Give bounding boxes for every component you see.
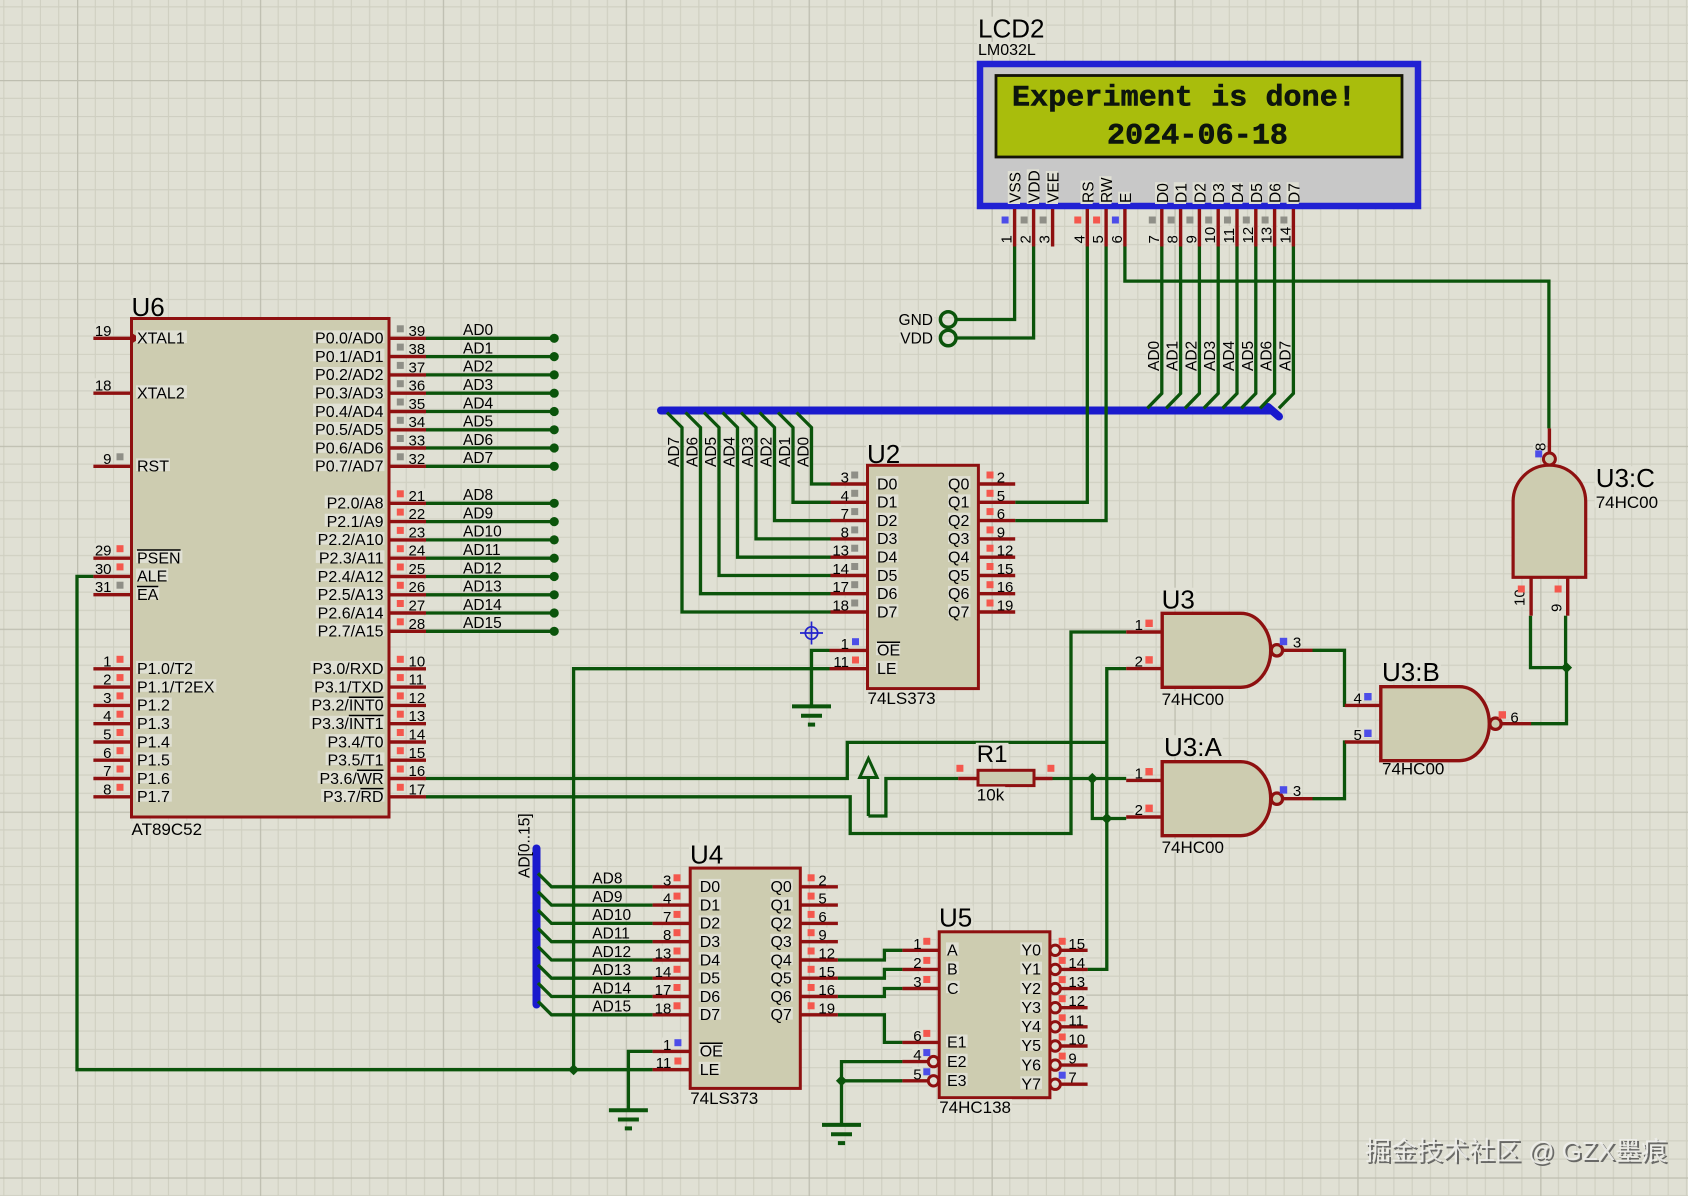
wire U3:A output to U3:B pin5 bbox=[1313, 742, 1346, 799]
svg-text:P0.6/AD6: P0.6/AD6 bbox=[315, 440, 384, 457]
svg-text:9: 9 bbox=[1183, 235, 1200, 243]
svg-text:1: 1 bbox=[103, 653, 111, 670]
NAND gate U3:A 74HC00 bbox=[1126, 732, 1312, 857]
wire AD5 from U6 P0.5 bbox=[426, 425, 559, 434]
U3:A pin numbers bbox=[1134, 766, 1144, 778]
svg-text:2: 2 bbox=[818, 872, 826, 889]
svg-text:4: 4 bbox=[913, 1047, 921, 1064]
svg-text:4: 4 bbox=[1071, 235, 1088, 243]
svg-text:P3.2/INT0: P3.2/INT0 bbox=[311, 698, 383, 715]
svg-text:D0: D0 bbox=[700, 879, 721, 896]
svg-text:Q0: Q0 bbox=[948, 476, 969, 493]
svg-text:P1.7: P1.7 bbox=[137, 789, 170, 806]
R1 reference label bbox=[976, 743, 1009, 762]
svg-text:28: 28 bbox=[409, 616, 426, 633]
junction U3:C input tie bbox=[1561, 662, 1572, 673]
net label AD11 bbox=[591, 926, 632, 938]
svg-text:D4: D4 bbox=[700, 952, 721, 969]
wire AD7 bus entry to U2 D7 bbox=[667, 413, 831, 613]
U3 pin numbers bbox=[1134, 618, 1144, 630]
svg-text:U3:C: U3:C bbox=[1596, 463, 1655, 493]
svg-text:19: 19 bbox=[818, 1000, 835, 1017]
NAND gate U3 74HC00 bbox=[1126, 585, 1312, 710]
net label AD8 bbox=[462, 487, 494, 499]
power terminal GND bbox=[940, 312, 956, 328]
net label AD6 bbox=[685, 436, 702, 468]
U4 pin 1 OE bbox=[653, 1050, 691, 1053]
svg-text:1: 1 bbox=[841, 636, 849, 653]
svg-text:VDD: VDD bbox=[900, 331, 933, 348]
svg-text:P2.7/A15: P2.7/A15 bbox=[318, 624, 384, 641]
U6 pin 9 RST bbox=[93, 465, 131, 468]
svg-text:8: 8 bbox=[663, 927, 671, 944]
svg-text:17: 17 bbox=[832, 579, 849, 596]
svg-text:1: 1 bbox=[1135, 765, 1143, 782]
net label AD3 bbox=[740, 436, 757, 468]
svg-text:32: 32 bbox=[409, 451, 426, 468]
svg-text:VSS: VSS bbox=[1008, 172, 1025, 203]
svg-text:6: 6 bbox=[913, 1028, 921, 1045]
svg-text:7: 7 bbox=[663, 909, 671, 926]
wire U4 Q7 to U5 E1 bbox=[838, 1015, 903, 1043]
svg-text:3: 3 bbox=[1293, 783, 1301, 800]
U2 pins D0-D7 bbox=[831, 482, 868, 485]
wire U3:C pin10 input tie bbox=[1531, 616, 1567, 668]
svg-text:4: 4 bbox=[663, 891, 671, 908]
svg-text:6: 6 bbox=[997, 506, 1005, 523]
wire AD3 bus entry to U2 D3 bbox=[741, 413, 831, 539]
svg-text:16: 16 bbox=[818, 982, 835, 999]
svg-text:GND: GND bbox=[899, 312, 933, 329]
svg-text:Q2: Q2 bbox=[770, 916, 791, 933]
wire AD3 from U6 P0.3 bbox=[426, 389, 559, 398]
svg-text:U3:A: U3:A bbox=[1164, 732, 1222, 762]
svg-text:AD6: AD6 bbox=[685, 437, 702, 467]
svg-text:34: 34 bbox=[409, 414, 426, 431]
svg-text:7: 7 bbox=[841, 506, 849, 523]
U4 pins D0-D7 bbox=[653, 885, 691, 888]
svg-text:ALE: ALE bbox=[137, 569, 167, 586]
net label GND bbox=[898, 312, 934, 324]
U5 output pins Y0-Y7 bbox=[1050, 945, 1060, 955]
svg-text:11: 11 bbox=[1221, 228, 1238, 244]
U3:A reference label bbox=[1163, 735, 1223, 755]
svg-text:AD4: AD4 bbox=[722, 436, 739, 467]
resistor R1 10k bbox=[956, 741, 1054, 805]
bus AD[0..15] vertical bus near U4 bbox=[533, 849, 541, 1005]
ground below U4 OE bbox=[609, 1110, 648, 1128]
U6 pin 18 XTAL2 bbox=[93, 392, 131, 395]
svg-text:AD3: AD3 bbox=[740, 437, 757, 467]
U6 pin 30 ALE bbox=[93, 575, 131, 578]
svg-text:P0.5/AD5: P0.5/AD5 bbox=[315, 422, 384, 439]
svg-text:Q4: Q4 bbox=[948, 550, 969, 567]
svg-text:12: 12 bbox=[409, 690, 426, 707]
svg-text:D3: D3 bbox=[877, 531, 898, 548]
svg-text:30: 30 bbox=[95, 561, 112, 578]
svg-text:Y0: Y0 bbox=[1021, 943, 1041, 960]
svg-text:P3.6/WR: P3.6/WR bbox=[319, 771, 383, 788]
svg-text:10: 10 bbox=[409, 653, 426, 670]
svg-text:3: 3 bbox=[841, 470, 849, 487]
svg-text:15: 15 bbox=[818, 964, 835, 981]
svg-text:13: 13 bbox=[409, 708, 426, 725]
svg-text:33: 33 bbox=[409, 433, 426, 450]
svg-text:Q6: Q6 bbox=[948, 586, 969, 603]
svg-text:2: 2 bbox=[1135, 653, 1143, 670]
svg-text:D0: D0 bbox=[877, 476, 898, 493]
U2 reference label bbox=[866, 442, 901, 462]
LCD pin stubs and numbers 1-14 bbox=[1013, 209, 1016, 247]
svg-text:P3.7/RD: P3.7/RD bbox=[323, 789, 383, 806]
net label AD6 (LCD side) bbox=[1259, 340, 1276, 372]
svg-text:AD1: AD1 bbox=[463, 340, 493, 357]
net label AD2 bbox=[759, 436, 776, 468]
svg-text:2: 2 bbox=[1135, 802, 1143, 819]
wire U4 Q to U5 A bbox=[838, 950, 903, 960]
net label AD9 bbox=[591, 889, 623, 901]
svg-text:AD15: AD15 bbox=[463, 615, 502, 632]
svg-text:3: 3 bbox=[663, 872, 671, 889]
net label AD2 bbox=[462, 359, 494, 371]
svg-text:Y1: Y1 bbox=[1021, 962, 1041, 979]
svg-text:Y5: Y5 bbox=[1021, 1038, 1041, 1055]
svg-text:U3:B: U3:B bbox=[1382, 657, 1440, 687]
svg-text:5: 5 bbox=[997, 488, 1005, 505]
net label AD1 bbox=[777, 436, 794, 468]
net label AD7 bbox=[666, 436, 683, 468]
svg-text:14: 14 bbox=[832, 561, 849, 578]
svg-text:AD5: AD5 bbox=[703, 437, 720, 467]
net label AD0 bbox=[462, 322, 494, 334]
wire U3:A pin2 tie bbox=[1101, 813, 1126, 824]
svg-text:P3.1/TXD: P3.1/TXD bbox=[314, 679, 383, 696]
decoder U5 74HC138 bbox=[902, 903, 1087, 1118]
svg-text:AD12: AD12 bbox=[592, 944, 631, 961]
svg-text:Q5: Q5 bbox=[948, 568, 969, 585]
svg-text:D2: D2 bbox=[877, 513, 898, 530]
svg-text:12: 12 bbox=[997, 543, 1014, 560]
wire LCD RW to U2 Q2 bbox=[1015, 247, 1106, 521]
wire AD4 from U6 P0.4 bbox=[426, 407, 559, 416]
svg-text:11: 11 bbox=[409, 672, 425, 689]
svg-text:AD3: AD3 bbox=[1202, 341, 1219, 371]
svg-text:2: 2 bbox=[913, 955, 921, 972]
svg-text:6: 6 bbox=[103, 745, 111, 762]
net label AD15 bbox=[591, 999, 632, 1011]
svg-text:AD8: AD8 bbox=[592, 871, 622, 888]
wire AD1 from U6 P0.1 bbox=[426, 352, 559, 361]
MCU U6 AT89C52 bbox=[93, 292, 426, 839]
net label AD0 bbox=[796, 436, 813, 468]
svg-text:8: 8 bbox=[1165, 235, 1182, 243]
svg-text:35: 35 bbox=[409, 396, 426, 413]
svg-text:8: 8 bbox=[103, 781, 111, 798]
svg-text:AD11: AD11 bbox=[592, 926, 630, 943]
svg-text:8: 8 bbox=[841, 524, 849, 541]
wire AD13 bus entry to U4 D5 bbox=[538, 965, 653, 978]
svg-text:Q2: Q2 bbox=[948, 513, 969, 530]
svg-text:P2.6/A14: P2.6/A14 bbox=[318, 605, 384, 622]
svg-text:4: 4 bbox=[841, 488, 849, 505]
wire AD15 from U6 P2.7 bbox=[426, 627, 559, 636]
svg-text:5: 5 bbox=[913, 1066, 921, 1083]
net label AD12 bbox=[462, 561, 503, 573]
svg-text:LM032L: LM032L bbox=[978, 42, 1036, 59]
svg-text:AD6: AD6 bbox=[463, 432, 493, 449]
svg-text:Experiment is done!: Experiment is done! bbox=[1012, 82, 1356, 116]
LCD2 reference label bbox=[977, 17, 1046, 37]
svg-text:1: 1 bbox=[999, 235, 1016, 243]
svg-text:AD1: AD1 bbox=[1165, 341, 1182, 371]
svg-text:P1.2: P1.2 bbox=[137, 698, 170, 715]
svg-text:31: 31 bbox=[95, 579, 112, 596]
net label AD5 bbox=[462, 414, 494, 426]
svg-text:D5: D5 bbox=[877, 568, 898, 585]
svg-text:VDD: VDD bbox=[1027, 170, 1044, 203]
ground below U2 OE bbox=[792, 706, 831, 724]
svg-text:39: 39 bbox=[409, 323, 426, 340]
svg-text:C: C bbox=[947, 981, 959, 998]
svg-text:Q7: Q7 bbox=[948, 604, 969, 621]
svg-text:2: 2 bbox=[1018, 235, 1035, 243]
wire U2 LE branch of ALE net bbox=[574, 669, 830, 1070]
U6 pin 31 EA bbox=[93, 593, 131, 596]
ground below U5 E2/E3 bbox=[822, 1125, 861, 1143]
U3:B reference label bbox=[1381, 660, 1441, 680]
svg-text:P0.1/AD1: P0.1/AD1 bbox=[315, 349, 384, 366]
svg-text:22: 22 bbox=[409, 506, 426, 523]
U5 input pins A,B,C,E1,E2,E3 bbox=[902, 949, 939, 952]
svg-text:P1.6: P1.6 bbox=[137, 771, 170, 788]
U3:B pin numbers bbox=[1353, 691, 1363, 703]
svg-text:D0: D0 bbox=[1155, 183, 1172, 203]
wire U3 output to U3:B pin4 bbox=[1313, 650, 1346, 705]
svg-text:14: 14 bbox=[409, 727, 426, 744]
svg-text:16: 16 bbox=[997, 579, 1014, 596]
net label AD11 bbox=[462, 542, 503, 554]
svg-text:74HC138: 74HC138 bbox=[939, 1098, 1011, 1117]
svg-text:38: 38 bbox=[409, 341, 426, 358]
svg-text:7: 7 bbox=[1146, 235, 1163, 243]
svg-text:Q5: Q5 bbox=[770, 971, 791, 988]
svg-text:B: B bbox=[947, 962, 958, 979]
svg-text:OE: OE bbox=[877, 643, 900, 660]
svg-text:6: 6 bbox=[1510, 710, 1518, 727]
node origin marker (blue crosshair) bbox=[800, 622, 823, 645]
svg-text:1: 1 bbox=[1135, 617, 1143, 634]
svg-text:AD5: AD5 bbox=[463, 414, 493, 431]
svg-text:D7: D7 bbox=[700, 1007, 721, 1024]
svg-text:2: 2 bbox=[997, 470, 1005, 487]
svg-text:6: 6 bbox=[1109, 235, 1126, 243]
net label AD7 bbox=[462, 450, 494, 462]
svg-text:E1: E1 bbox=[947, 1035, 967, 1052]
svg-text:11: 11 bbox=[656, 1055, 672, 1072]
svg-text:37: 37 bbox=[409, 359, 426, 376]
svg-text:D2: D2 bbox=[700, 916, 721, 933]
svg-text:6: 6 bbox=[818, 909, 826, 926]
svg-text:8: 8 bbox=[1533, 443, 1550, 451]
net label AD15 bbox=[462, 615, 503, 627]
svg-text:E: E bbox=[1118, 193, 1135, 203]
svg-text:74HC00: 74HC00 bbox=[1382, 760, 1444, 779]
svg-text:3: 3 bbox=[1293, 635, 1301, 652]
svg-text:D1: D1 bbox=[1174, 183, 1191, 203]
wire AD7 from U6 P0.7 bbox=[426, 462, 559, 471]
svg-text:12: 12 bbox=[1068, 993, 1085, 1010]
svg-text:LE: LE bbox=[700, 1062, 720, 1079]
svg-text:AD11: AD11 bbox=[463, 542, 501, 559]
svg-text:P1.4: P1.4 bbox=[137, 734, 170, 751]
svg-text:AD0: AD0 bbox=[1146, 340, 1163, 371]
net label AD8 bbox=[591, 871, 623, 883]
svg-text:74HC00: 74HC00 bbox=[1162, 690, 1224, 709]
svg-text:XTAL1: XTAL1 bbox=[137, 331, 185, 348]
U3:A value label 74HC00 bbox=[1161, 839, 1225, 852]
U4 pin 11 LE bbox=[653, 1068, 691, 1071]
svg-text:P3.4/T0: P3.4/T0 bbox=[327, 734, 383, 751]
wire LCD D5 to bus bbox=[1241, 247, 1256, 409]
net label AD5 bbox=[703, 436, 720, 468]
junction R1 / U3:A pin1 tie bbox=[1087, 773, 1107, 819]
svg-text:15: 15 bbox=[1068, 936, 1085, 953]
wire U4 Q to U5 C bbox=[838, 989, 903, 997]
wire AD10 bus entry to U4 D2 bbox=[538, 910, 653, 924]
svg-text:D2: D2 bbox=[1192, 183, 1209, 203]
svg-text:7: 7 bbox=[103, 763, 111, 780]
wire AD6 from U6 P0.6 bbox=[426, 443, 559, 452]
wire R1 right lead to U3:A pin1 bbox=[1053, 777, 1127, 780]
wire LCD RS to U2 Q1 bbox=[1015, 247, 1087, 503]
junction ALE/LE net bbox=[568, 1064, 579, 1075]
svg-text:D1: D1 bbox=[700, 897, 721, 914]
wire AD8 bus entry to U4 D0 bbox=[538, 873, 653, 887]
wire U5 E2/E3 to ground bbox=[836, 1062, 903, 1125]
net label AD1 bbox=[462, 341, 494, 353]
wire AD13 from U6 P2.5 bbox=[426, 590, 559, 599]
svg-text:Q6: Q6 bbox=[770, 989, 791, 1006]
net label AD14 bbox=[591, 981, 632, 993]
svg-text:1: 1 bbox=[913, 936, 921, 953]
wire ALE net: U6 ALE down left edge to U4 LE bbox=[77, 576, 653, 1069]
U6 reference label bbox=[131, 295, 166, 315]
bus AD[0..7] horizontal data bus bbox=[661, 407, 1279, 417]
svg-text:掘金技术社区 @ GZX墨痕: 掘金技术社区 @ GZX墨痕 bbox=[1365, 1136, 1667, 1166]
svg-text:14: 14 bbox=[1068, 955, 1085, 972]
power terminal VDD bbox=[940, 330, 956, 346]
svg-text:P0.7/AD7: P0.7/AD7 bbox=[315, 459, 384, 476]
svg-text:17: 17 bbox=[409, 781, 426, 798]
svg-text:PSEN: PSEN bbox=[137, 551, 181, 568]
svg-text:AD13: AD13 bbox=[463, 579, 502, 596]
net label AD[0..15] bbox=[517, 812, 534, 879]
svg-text:D6: D6 bbox=[877, 586, 898, 603]
svg-text:LE: LE bbox=[877, 661, 897, 678]
wire LCD D1 to bus bbox=[1166, 247, 1181, 409]
net label AD13 bbox=[591, 962, 632, 974]
svg-text:EA: EA bbox=[137, 587, 159, 604]
svg-text:9: 9 bbox=[818, 927, 826, 944]
net label AD0 (LCD side) bbox=[1146, 340, 1163, 372]
svg-text:1: 1 bbox=[663, 1037, 671, 1054]
net label AD4 bbox=[722, 436, 739, 468]
svg-text:15: 15 bbox=[997, 561, 1014, 578]
svg-text:9: 9 bbox=[1068, 1051, 1076, 1068]
NAND gate U3:C 74HC00 (rotated, output up) bbox=[1512, 428, 1660, 615]
wire AD2 bus entry to U2 D2 bbox=[760, 413, 831, 521]
svg-text:5: 5 bbox=[1090, 235, 1107, 243]
wire AD6 bus entry to U2 D6 bbox=[686, 413, 831, 594]
svg-text:5: 5 bbox=[1354, 727, 1362, 744]
svg-text:XTAL2: XTAL2 bbox=[137, 386, 185, 403]
svg-text:RW: RW bbox=[1099, 177, 1116, 203]
svg-text:P2.2/A10: P2.2/A10 bbox=[318, 532, 384, 549]
wire U2 OE to ground bbox=[812, 650, 830, 706]
U2 pin 11 LE bbox=[830, 667, 868, 670]
svg-text:25: 25 bbox=[409, 561, 426, 578]
svg-text:19: 19 bbox=[997, 598, 1014, 615]
svg-text:VEE: VEE bbox=[1046, 172, 1063, 203]
net label AD9 bbox=[462, 506, 494, 518]
svg-text:13: 13 bbox=[832, 543, 849, 560]
svg-text:D6: D6 bbox=[1268, 183, 1285, 203]
svg-text:P2.1/A9: P2.1/A9 bbox=[327, 514, 384, 531]
U4 reference label bbox=[689, 843, 724, 863]
svg-text:12: 12 bbox=[1240, 227, 1257, 244]
wire U4 Q to U5 B bbox=[838, 969, 903, 978]
svg-text:2: 2 bbox=[103, 672, 111, 689]
wire AD11 bus entry to U4 D3 bbox=[538, 928, 653, 942]
U3:C pin numbers bbox=[1533, 442, 1550, 452]
svg-text:P0.2/AD2: P0.2/AD2 bbox=[315, 367, 384, 384]
svg-text:R1: R1 bbox=[977, 741, 1008, 768]
wire AD8 from U6 P2.0 bbox=[426, 499, 559, 508]
U3 value label 74HC00 bbox=[1161, 691, 1225, 704]
svg-text:Y6: Y6 bbox=[1021, 1057, 1041, 1074]
svg-text:P1.0/T2: P1.0/T2 bbox=[137, 661, 193, 678]
net label AD4 (LCD side) bbox=[1221, 340, 1238, 372]
net label AD1 (LCD side) bbox=[1165, 340, 1182, 372]
svg-text:AD2: AD2 bbox=[759, 437, 776, 467]
svg-text:9: 9 bbox=[1549, 604, 1566, 612]
svg-text:AD13: AD13 bbox=[592, 962, 631, 979]
wire AD14 bus entry to U4 D6 bbox=[538, 983, 653, 997]
svg-text:AD0: AD0 bbox=[463, 322, 494, 339]
svg-text:D5: D5 bbox=[1249, 183, 1266, 203]
svg-text:AD7: AD7 bbox=[463, 450, 493, 467]
svg-text:18: 18 bbox=[655, 1000, 672, 1017]
svg-text:D3: D3 bbox=[1211, 183, 1228, 203]
net label AD10 bbox=[591, 907, 632, 919]
U6 pins 1-8 P1.0-P1.7 bbox=[93, 667, 131, 670]
svg-text:16: 16 bbox=[409, 763, 426, 780]
watermark text bbox=[1365, 1136, 1669, 1168]
svg-text:Q1: Q1 bbox=[948, 495, 969, 512]
wire U4 OE to ground bbox=[628, 1051, 652, 1110]
wire LCD D2 to bus bbox=[1185, 247, 1200, 409]
svg-text:AD12: AD12 bbox=[463, 560, 502, 577]
wire LCD D6 to bus bbox=[1260, 247, 1275, 409]
net label AD13 bbox=[462, 579, 503, 591]
svg-text:P3.0/RXD: P3.0/RXD bbox=[312, 661, 383, 678]
svg-text:13: 13 bbox=[1259, 227, 1276, 244]
svg-text:AD2: AD2 bbox=[1183, 341, 1200, 371]
svg-text:10k: 10k bbox=[977, 786, 1005, 805]
svg-text:74LS373: 74LS373 bbox=[868, 689, 936, 708]
svg-text:AD10: AD10 bbox=[463, 524, 502, 541]
svg-text:12: 12 bbox=[818, 946, 835, 963]
